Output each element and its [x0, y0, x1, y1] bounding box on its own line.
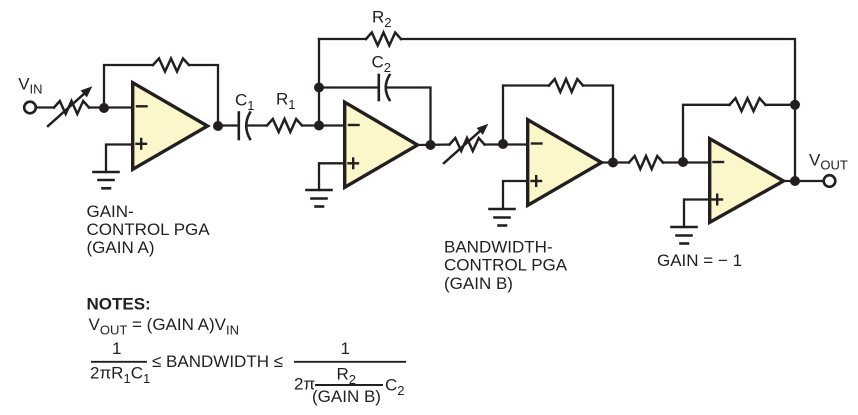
wire riser node C to R2 rail [318, 39, 320, 126]
ground G4 [672, 227, 697, 244]
wire U2 plus input to ground [319, 163, 343, 190]
node I (feedback/R2 junction) [790, 100, 800, 110]
ground G3 [490, 209, 515, 226]
wire resistor to node H [663, 161, 708, 163]
svg-text:R2: R2 [372, 8, 392, 31]
wire to node A [89, 106, 131, 108]
U3 plus symbol [532, 176, 542, 186]
wire node D to C2 [319, 86, 379, 88]
op-amp U4 [710, 139, 784, 223]
wire U4 plus input to ground [684, 200, 708, 228]
node H (op-amp4 inverting input) [678, 157, 688, 167]
svg-text:1: 1 [341, 339, 350, 358]
ground G1 [94, 172, 119, 188]
ground G2 [307, 190, 332, 207]
resistor feedback op-amp1 [153, 59, 189, 72]
node F (op-amp3 inverting input) [498, 139, 508, 149]
U4 plus symbol [713, 195, 723, 205]
resistor interstage 3-4 [629, 156, 663, 169]
wire feedback 3 left riser [503, 86, 549, 145]
capacitor C1 [239, 113, 250, 140]
U1 plus symbol [137, 139, 147, 149]
variable resistor (bandwidth pot) [450, 138, 485, 151]
svg-text:1: 1 [112, 339, 121, 358]
node G (op-amp3 output) [608, 158, 618, 168]
svg-text:C1: C1 [235, 91, 255, 114]
resistor R2 [366, 33, 401, 46]
capacitor C2 [379, 75, 390, 100]
node C (op-amp2 inverting input) [314, 121, 324, 131]
wire feedback 1 right drop [189, 65, 218, 126]
svg-text:NOTES:: NOTES: [87, 295, 151, 314]
svg-text:2πR1C1: 2πR1C1 [90, 364, 150, 387]
svg-text:GAIN = − 1: GAIN = − 1 [657, 251, 742, 270]
svg-text:R1: R1 [276, 90, 296, 113]
op-amp U3 [528, 120, 602, 206]
svg-text:C2: C2 [385, 376, 405, 399]
wire op-amp4 output to VOUT [784, 180, 824, 182]
wire VIN to variable resistor [36, 106, 54, 108]
wire to node F [485, 143, 527, 145]
svg-text:VIN: VIN [18, 75, 42, 97]
node D (C2 tap) [314, 83, 324, 93]
U4 minus symbol [714, 161, 724, 163]
svg-text:(GAIN B): (GAIN B) [444, 274, 513, 293]
wire R1 to node C [303, 124, 343, 126]
wire U1 plus input to ground [106, 145, 131, 173]
svg-text:VOUT: VOUT [809, 151, 848, 173]
wire C2 to drop at op-amp2 output [388, 88, 431, 146]
U1 minus symbol [137, 105, 147, 107]
wire op-amp3 output to interstage resistor [602, 161, 629, 163]
node J (op-amp4 output) [790, 176, 800, 186]
U3 minus symbol [532, 142, 542, 144]
wire feedback 4 left riser [683, 105, 730, 162]
wire R2 rail right segment to right drop [401, 39, 795, 181]
svg-text:R2: R2 [337, 365, 357, 388]
note fraction 2 bar [294, 361, 406, 363]
svg-text:(GAIN B): (GAIN B) [312, 387, 381, 406]
resistor feedback op-amp4 [730, 98, 766, 111]
svg-text:CONTROL PGA: CONTROL PGA [444, 256, 568, 275]
op-amp U1 [133, 83, 208, 170]
wire R2 rail left segment [319, 38, 366, 40]
wire feedback 1 left riser [104, 65, 153, 108]
svg-text:≤ BANDWIDTH ≤: ≤ BANDWIDTH ≤ [152, 352, 283, 371]
U2 minus symbol [349, 124, 359, 126]
terminal VIN [24, 102, 36, 114]
U2 plus symbol [349, 159, 359, 169]
svg-text:C2: C2 [372, 53, 392, 76]
svg-text:VOUT = (GAIN A)VIN: VOUT = (GAIN A)VIN [89, 315, 240, 338]
svg-text:GAIN-: GAIN- [87, 202, 134, 221]
note fraction 1 bar [91, 361, 147, 363]
terminal VOUT [824, 175, 836, 187]
wire op-amp2 output to variable resistor 2 [418, 143, 450, 146]
node B (op-amp1 output) [213, 121, 223, 131]
node E (op-amp2 output) [426, 140, 436, 150]
wire feedback 4 to node I [766, 104, 796, 106]
node A (op-amp1 inverting input) [99, 103, 109, 113]
variable resistor 2 arrow [444, 124, 488, 163]
op-amp U2 [345, 102, 418, 187]
resistor feedback op-amp3 [549, 79, 583, 92]
wire op-amp1 output to C1 [218, 124, 239, 126]
wire U3 plus input to ground [503, 181, 526, 209]
svg-text:CONTROL PGA: CONTROL PGA [87, 220, 211, 239]
variable resistor arrow [48, 86, 92, 126]
variable resistor (input attenuator) [54, 101, 89, 114]
wire feedback 3 right drop [583, 86, 613, 163]
resistor R1 [267, 119, 302, 132]
note nested fraction bar [315, 384, 383, 386]
svg-text:BANDWIDTH-: BANDWIDTH- [444, 238, 553, 257]
svg-text:(GAIN A): (GAIN A) [87, 238, 155, 257]
wire C1 to R1 [248, 124, 266, 126]
